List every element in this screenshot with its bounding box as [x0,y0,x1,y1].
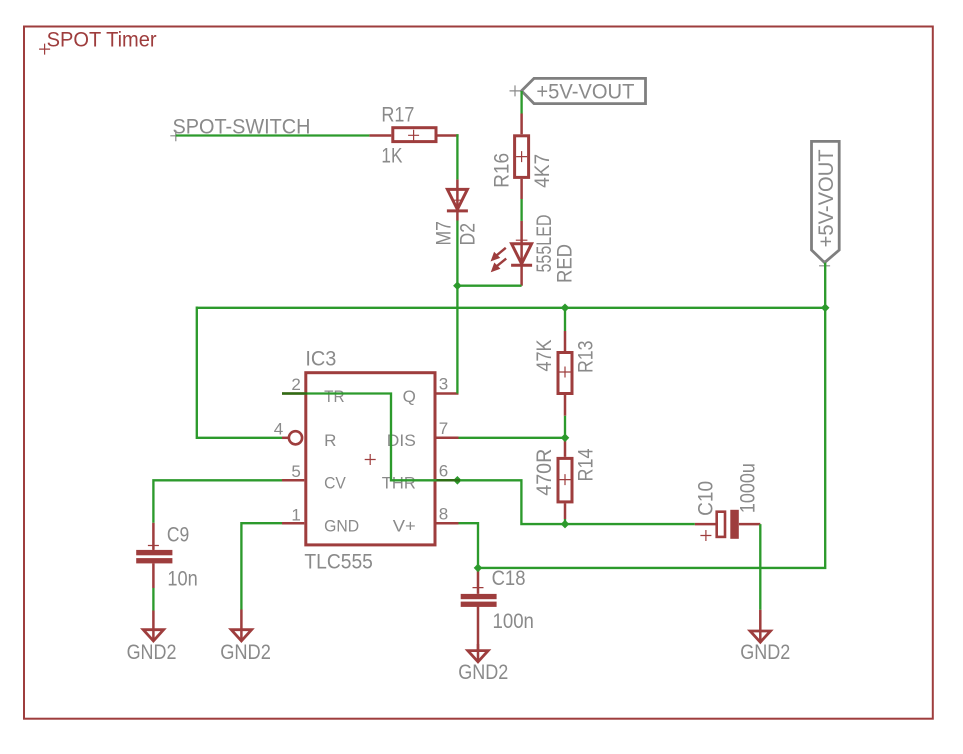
svg-text:V+: V+ [393,517,416,536]
svg-text:IC3: IC3 [305,348,336,371]
junction at bus/R13 [561,304,570,313]
svg-text:C10: C10 [694,481,717,516]
svg-text:47K: 47K [533,340,556,372]
wire D2 to Q pin 3 [456,221,458,394]
svg-text:GND2: GND2 [458,661,508,684]
LED 555LED RED [492,221,532,286]
wire overlap pin 6 (net over pin) [437,479,461,481]
svg-text:M7: M7 [433,221,456,246]
svg-text:SPOT Timer: SPOT Timer [47,29,157,52]
svg-text:Q: Q [403,387,416,406]
diode D2 M7 [447,179,468,220]
wire R13 to R14 node [564,416,566,438]
IC3 pin 7 DIS stub [437,437,459,440]
junction at bus/right flag [821,304,830,313]
resistor R17 [369,128,458,142]
ground GND2 (under C9) [143,611,163,641]
resistor R16 [515,114,529,200]
wire THR to C10 [457,480,694,524]
svg-text:7: 7 [439,419,448,438]
junction at V+/C18 [474,564,483,573]
ground GND2 (under C10) [750,610,770,643]
junction at DIS/R13/R14 [561,434,570,443]
svg-text:GND2: GND2 [740,641,790,664]
wire V+ rail to right flag [478,263,825,568]
wire R14 to THR rail [564,519,566,524]
svg-text:4K7: 4K7 [531,154,554,188]
wire TR to THR [282,394,457,481]
wire CV pin 5 to C9 [153,480,282,523]
wire GND pin 1 to ground [241,523,282,609]
svg-text:+5V-VOUT: +5V-VOUT [536,80,634,103]
svg-text:R16: R16 [491,153,514,188]
svg-text:C18: C18 [492,567,526,590]
svg-text:1: 1 [291,505,300,524]
svg-text:GND: GND [324,517,359,536]
IC3 pin 6 THR stub [437,479,459,482]
supply +5V-VOUT flag (top) [510,78,646,103]
svg-text:8: 8 [439,504,448,523]
svg-text:2: 2 [291,375,300,394]
resistor R13 [558,331,572,416]
capacitor C18 [461,568,497,660]
svg-text:THR: THR [382,474,416,493]
wire +5V bus [197,307,825,309]
svg-text:5: 5 [291,462,300,481]
IC3 pin 2 TR stub [282,392,304,395]
svg-text:C9: C9 [167,524,189,547]
svg-text:R17: R17 [381,103,414,126]
wire bus to R pin 4 [197,307,282,438]
svg-text:R14: R14 [574,448,597,481]
svg-text:GND2: GND2 [127,641,177,664]
wire overlap pin 2 (net over pin) [282,392,307,394]
svg-text:10n: 10n [167,568,197,591]
wire LED cathode branch [456,285,521,287]
wire SPOT-SWITCH to R17 [176,134,370,136]
wire C10 to ground [759,524,761,610]
svg-text:RED: RED [554,244,577,283]
svg-text:3: 3 [439,375,448,394]
junction at D2/LED/Q node [453,281,462,290]
svg-text:D2: D2 [457,223,480,246]
IC3 pin 1 GND stub [282,522,304,525]
wire V+ pin 8 to C18 [459,523,479,568]
IC3 pin 4 R stub [282,437,289,440]
svg-text:R13: R13 [574,341,597,374]
junction at R14/THR rail [561,520,570,529]
junction at THR pin 6 [453,476,462,485]
resistor R14 [558,438,572,519]
svg-text:GND2: GND2 [220,641,271,664]
svg-text:1K: 1K [381,144,402,167]
svg-text:1000u: 1000u [737,463,760,513]
svg-text:100n: 100n [493,610,534,633]
IC3 pin 8 V+ stub [437,522,459,525]
capacitor C9 [136,523,172,588]
wire R17 to D2 [456,134,458,179]
IC3 pin 4 inversion bubble [289,431,302,444]
supply +5V-VOUT flag (right) [812,141,840,271]
wire +5V flag to R16 [520,91,522,114]
svg-text:TLC555: TLC555 [304,551,373,574]
polarized capacitor C10 [695,510,761,541]
ground GND2 (under C18) [468,644,488,662]
IC3 op-amp/timer body TLC555 [306,373,435,545]
ground GND2 (pin1) [231,610,251,641]
svg-text:CV: CV [324,474,346,493]
svg-text:R: R [324,431,336,450]
svg-text:6: 6 [439,462,448,481]
svg-text:4: 4 [274,420,283,439]
svg-text:+5V-VOUT: +5V-VOUT [815,149,838,247]
svg-text:TR: TR [324,387,345,406]
wire C9 to ground [152,588,154,611]
wire bus to R13 [564,307,566,332]
svg-text:470R: 470R [533,449,556,496]
IC3 pin 3 Q stub [437,392,459,395]
wire DIS pin 7 to R13/R14 [459,437,566,439]
IC3 pin 5 CV stub [282,479,304,482]
wire R16 to LED [520,199,522,221]
